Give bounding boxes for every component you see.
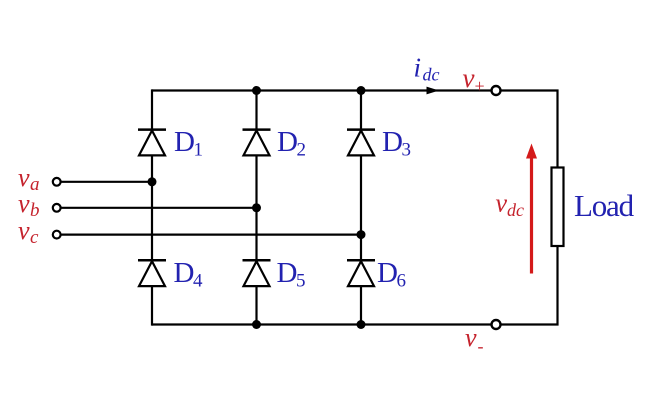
diode D1 — [138, 130, 166, 156]
diode D3 — [347, 130, 375, 156]
wire column 3 — [360, 91, 362, 325]
svg-text:+: + — [475, 76, 485, 96]
svg-text:6: 6 — [397, 271, 407, 292]
svg-text:i: i — [414, 53, 422, 83]
svg-text:D: D — [382, 126, 403, 158]
wire phase a — [58, 181, 152, 183]
svg-text:v: v — [18, 163, 30, 192]
junction dot phase c / col3 — [357, 230, 366, 239]
svg-text:D: D — [277, 257, 298, 289]
current arrow i_dc on top rail — [427, 87, 440, 95]
svg-text:dc: dc — [507, 200, 524, 220]
terminal circle va — [53, 178, 61, 186]
svg-text:Load: Load — [574, 188, 635, 223]
wire top rail and right vertical upper — [152, 91, 558, 169]
terminal circle v+ — [492, 86, 501, 95]
diode D6 — [347, 260, 375, 286]
wire phase c — [58, 234, 361, 236]
svg-text:v: v — [465, 323, 477, 352]
diode D2 — [243, 130, 271, 156]
svg-text:4: 4 — [193, 271, 203, 292]
junction dot phase a / col1 — [148, 177, 157, 186]
svg-text:v: v — [18, 189, 30, 218]
vdc red arrow — [526, 144, 537, 274]
load resistor rectangle — [552, 168, 564, 247]
svg-text:D: D — [174, 126, 195, 158]
terminal circle vb — [53, 204, 61, 212]
svg-text:v: v — [463, 63, 475, 93]
diode D4 — [138, 260, 166, 286]
junction dot top rail col2 — [252, 86, 261, 95]
terminal circle v- — [492, 320, 501, 329]
junction dot phase b / col2 — [252, 203, 261, 212]
junction dot top rail col3 — [357, 86, 366, 95]
svg-text:3: 3 — [402, 140, 412, 161]
svg-text:D: D — [277, 126, 298, 158]
svg-text:c: c — [30, 227, 39, 248]
junction dot bottom rail col3 — [357, 320, 366, 329]
wire column 1 (left leg) — [151, 89, 153, 325]
svg-text:b: b — [30, 200, 40, 221]
diode D5 — [243, 260, 271, 286]
svg-text:5: 5 — [296, 271, 306, 292]
svg-text:2: 2 — [297, 140, 307, 161]
svg-text:v: v — [18, 216, 30, 245]
svg-text:D: D — [377, 257, 398, 289]
terminal circle vc — [53, 231, 61, 239]
svg-text:-: - — [478, 336, 484, 356]
svg-text:v: v — [496, 189, 508, 218]
svg-text:dc: dc — [423, 65, 440, 85]
wire bottom rail and right vertical lower — [152, 246, 558, 325]
junction dot bottom rail col2 — [252, 320, 261, 329]
wire column 2 — [255, 91, 257, 325]
svg-text:D: D — [174, 257, 195, 289]
svg-text:a: a — [30, 174, 40, 195]
wire phase b — [58, 207, 257, 209]
svg-text:1: 1 — [194, 140, 204, 161]
